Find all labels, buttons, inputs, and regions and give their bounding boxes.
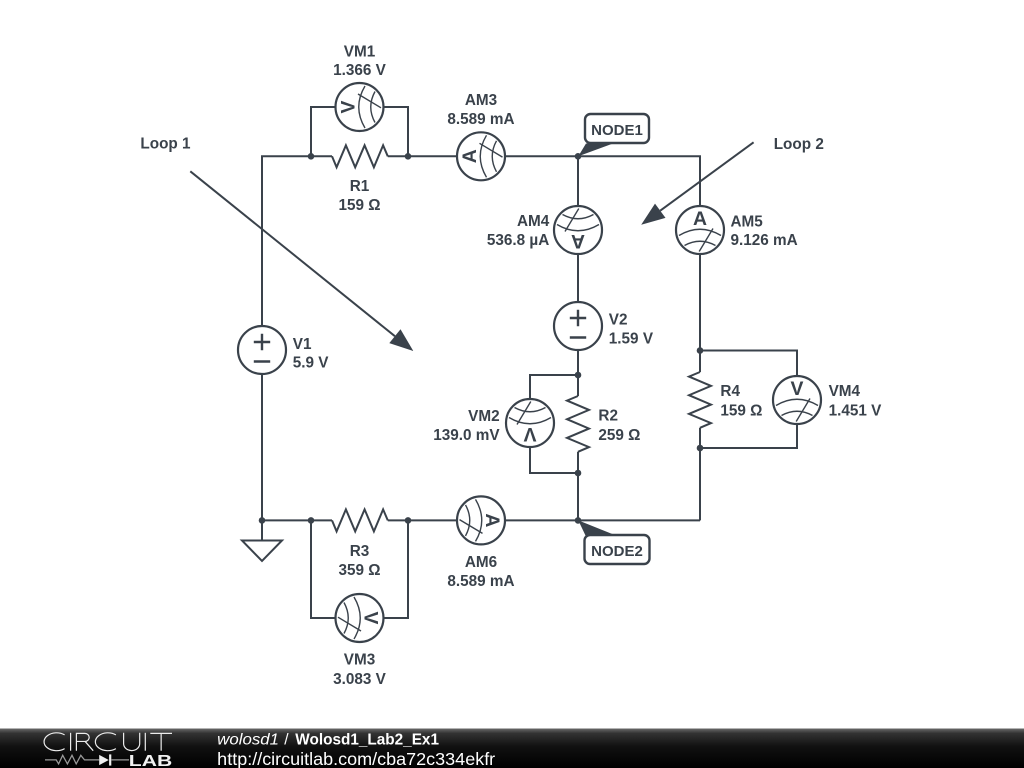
junction ground (259, 517, 266, 524)
svg-text:A: A (571, 230, 585, 252)
svg-text:R4: R4 (720, 383, 740, 400)
node NODE2 label (578, 520, 649, 564)
svg-text:R2: R2 (598, 408, 618, 425)
svg-text:VM1: VM1 (344, 43, 376, 60)
junction R2 bottom (575, 470, 582, 477)
wire bottom-right riser (699, 428, 701, 521)
svg-text:V: V (791, 378, 804, 400)
wire VM4 bottom (700, 424, 797, 448)
svg-text:Wolosd1_Lab2_Ex1: Wolosd1_Lab2_Ex1 (295, 731, 439, 748)
svg-text:wolosd1: wolosd1 (217, 731, 279, 748)
svg-text:AM3: AM3 (465, 92, 497, 109)
node NODE1 label (578, 114, 649, 156)
wire AM4 to V2 (577, 254, 579, 302)
arrow Loop 1 (190, 171, 413, 351)
svg-text:R3: R3 (350, 543, 370, 560)
svg-text:A: A (693, 208, 707, 230)
voltmeter VM2 (506, 399, 554, 447)
wire AM5 to R4 (699, 254, 701, 372)
svg-text:/: / (284, 731, 289, 748)
resistor R4 (689, 372, 711, 428)
svg-text:Loop 2: Loop 2 (774, 136, 824, 153)
svg-text:159 Ω: 159 Ω (720, 402, 762, 419)
wire AM6 through NODE2 to right (505, 519, 700, 521)
node NODE1 junction (575, 153, 582, 160)
arrow Loop 2 (641, 142, 753, 224)
junction R4 top (697, 347, 704, 354)
ammeter AM3 (457, 132, 505, 180)
svg-text:V: V (337, 100, 359, 113)
svg-text:359 Ω: 359 Ω (338, 562, 380, 579)
wire VM3 left (311, 520, 336, 618)
svg-text:8.589 mA: 8.589 mA (447, 111, 514, 128)
svg-text:NODE2: NODE2 (591, 543, 643, 560)
svg-text:http://circuitlab.com/cba72c33: http://circuitlab.com/cba72c334ekfr (217, 749, 495, 768)
wire R2 to NODE2 (577, 452, 579, 521)
ammeter AM6 (457, 496, 505, 544)
svg-text:9.126 mA: 9.126 mA (731, 232, 798, 249)
svg-text:8.589 mA: 8.589 mA (447, 573, 514, 590)
junction R1 left (308, 153, 315, 160)
ammeter AM5 (676, 206, 724, 254)
resistor R1 (332, 145, 388, 167)
svg-text:V: V (360, 612, 382, 625)
svg-text:V2: V2 (609, 311, 628, 328)
junction R4 bottom (697, 445, 704, 452)
ammeter AM4 (554, 206, 602, 254)
svg-text:536.8 µA: 536.8 µA (487, 232, 549, 249)
svg-text:LAB: LAB (129, 753, 172, 768)
svg-text:5.9 V: 5.9 V (293, 355, 330, 372)
svg-text:259 Ω: 259 Ω (598, 427, 640, 444)
svg-text:V1: V1 (293, 336, 312, 353)
wire R1 to AM3 (388, 155, 457, 157)
svg-text:AM4: AM4 (517, 213, 550, 230)
junction R1 right (405, 153, 412, 160)
voltage source V2 (554, 302, 602, 350)
junction R3 right (405, 517, 412, 524)
wire VM1 right (384, 107, 409, 156)
svg-text:139.0 mV: 139.0 mV (433, 427, 500, 444)
svg-text:VM2: VM2 (468, 408, 499, 425)
junction R3 left (308, 517, 315, 524)
ground (242, 520, 282, 561)
voltmeter VM1 (336, 83, 384, 131)
voltmeter VM3 (336, 594, 384, 642)
svg-text:AM5: AM5 (731, 213, 764, 230)
logo CIRCUIT LAB (44, 733, 172, 751)
wire VM4 top (700, 351, 797, 377)
svg-text:1.59 V: 1.59 V (609, 330, 654, 347)
svg-text:R1: R1 (350, 178, 370, 195)
svg-text:1.451 V: 1.451 V (829, 403, 883, 420)
junction R2 top (575, 372, 582, 379)
svg-text:NODE1: NODE1 (591, 122, 643, 139)
wire VM3 right (384, 520, 409, 618)
svg-text:V: V (523, 423, 536, 445)
svg-text:159 Ω: 159 Ω (338, 197, 380, 214)
wire AM3 to NODE1 to AM5 (505, 156, 700, 206)
voltmeter VM4 (773, 376, 821, 424)
svg-text:Loop 1: Loop 1 (140, 136, 191, 153)
svg-text:1.366 V: 1.366 V (333, 62, 387, 79)
wire VM1 left (311, 107, 336, 156)
wire left-top corner (262, 156, 332, 326)
svg-text:AM6: AM6 (465, 554, 497, 571)
svg-text:A: A (459, 149, 481, 163)
resistor R3 (332, 509, 388, 531)
wire R3 to AM6 (388, 519, 457, 521)
voltage source V1 (238, 326, 286, 374)
svg-text:VM3: VM3 (344, 652, 375, 669)
wire V1 to bottom-left corner (262, 374, 332, 520)
wire VM2 top (530, 375, 578, 399)
wire VM2 bottom (530, 447, 578, 473)
resistor R2 (567, 396, 589, 452)
wire NODE1 to AM4 (577, 156, 579, 206)
svg-text:3.083 V: 3.083 V (333, 671, 387, 688)
wire V2 to R2 (577, 350, 579, 396)
node NODE2 junction (575, 517, 582, 524)
svg-text:VM4: VM4 (829, 383, 861, 400)
svg-text:A: A (481, 513, 503, 527)
